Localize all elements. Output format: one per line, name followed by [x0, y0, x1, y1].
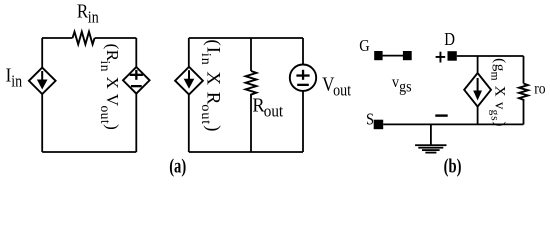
wire gate: [383, 55, 403, 57]
wire bottom: [189, 151, 303, 153]
terminal G (square): [374, 51, 382, 60]
wire right lower: [135, 94, 137, 152]
svg-text:G: G: [359, 37, 369, 55]
wire bottom: [42, 151, 136, 153]
dependent current source (Iin X Rout) diamond: [175, 67, 203, 95]
label Rout: [252, 95, 283, 121]
ground: [415, 124, 446, 153]
wire middle branch upper: [250, 38, 252, 71]
terminal S (square): [374, 120, 384, 130]
svg-text:Iin: Iin: [6, 64, 23, 91]
svg-text:(Iin X Rout): (Iin X Rout): [198, 39, 224, 132]
wire top-right segment: [95, 37, 137, 39]
svg-text:(gm X vgs): (gm X vgs): [488, 58, 507, 127]
svg-text:Rin: Rin: [77, 0, 99, 27]
svg-text:(b): (b): [444, 154, 462, 177]
label (Iin X Rout) rotated: [198, 39, 224, 132]
svg-text:Vout: Vout: [322, 73, 352, 100]
label + (vgs polarity): [436, 52, 446, 63]
resistor Rin: [73, 32, 95, 45]
wire current-source branch upper: [477, 56, 479, 73]
resistor ro: [519, 84, 528, 102]
svg-text:D: D: [444, 30, 455, 49]
svg-text:(Rin X Vout): (Rin X Vout): [98, 44, 122, 131]
label (b): [444, 154, 462, 177]
label (gm X vgs) rotated: [488, 58, 507, 127]
svg-text:ro: ro: [534, 81, 545, 98]
label D: [444, 30, 455, 49]
svg-text:Rout: Rout: [252, 95, 283, 121]
wire left upper: [41, 38, 43, 68]
dependent voltage source (Rin X Vout) diamond: [123, 67, 150, 94]
resistor Rout: [246, 71, 257, 98]
label ro: [534, 81, 545, 98]
wire right lower: [302, 91, 304, 152]
wire left upper: [188, 38, 190, 67]
current source Iin (diamond): [29, 68, 56, 94]
label (Rin X Vout) rotated: [98, 44, 122, 131]
label Iin: [6, 64, 23, 91]
label G: [359, 37, 369, 55]
wire current-source branch lower: [477, 107, 479, 125]
wire middle branch lower: [250, 98, 252, 153]
wire right upper: [302, 38, 304, 65]
wire right upper: [135, 38, 137, 67]
voltage source Vout (circle): [290, 65, 316, 91]
label vgs: [392, 74, 412, 96]
dependent current source (gm X vgs) diamond: [464, 73, 491, 107]
svg-text:(a): (a): [169, 154, 186, 177]
wire drain top: [457, 55, 524, 57]
wire top: [189, 37, 303, 39]
wire top-left segment: [42, 37, 73, 39]
svg-text:S: S: [366, 110, 374, 128]
svg-text:vgs: vgs: [392, 74, 412, 96]
wire ro branch lower: [523, 101, 525, 124]
label - (vgs polarity): [435, 114, 447, 116]
wire left lower: [188, 95, 190, 153]
label (a): [169, 154, 186, 177]
wire left lower: [41, 94, 43, 152]
wire source bottom: [383, 123, 523, 125]
label Vout: [322, 73, 352, 100]
label Rin: [77, 0, 99, 27]
wire ro branch upper: [523, 56, 525, 84]
terminal D (square): [448, 51, 457, 61]
node gate end (square): [403, 51, 412, 60]
label S: [366, 110, 374, 128]
